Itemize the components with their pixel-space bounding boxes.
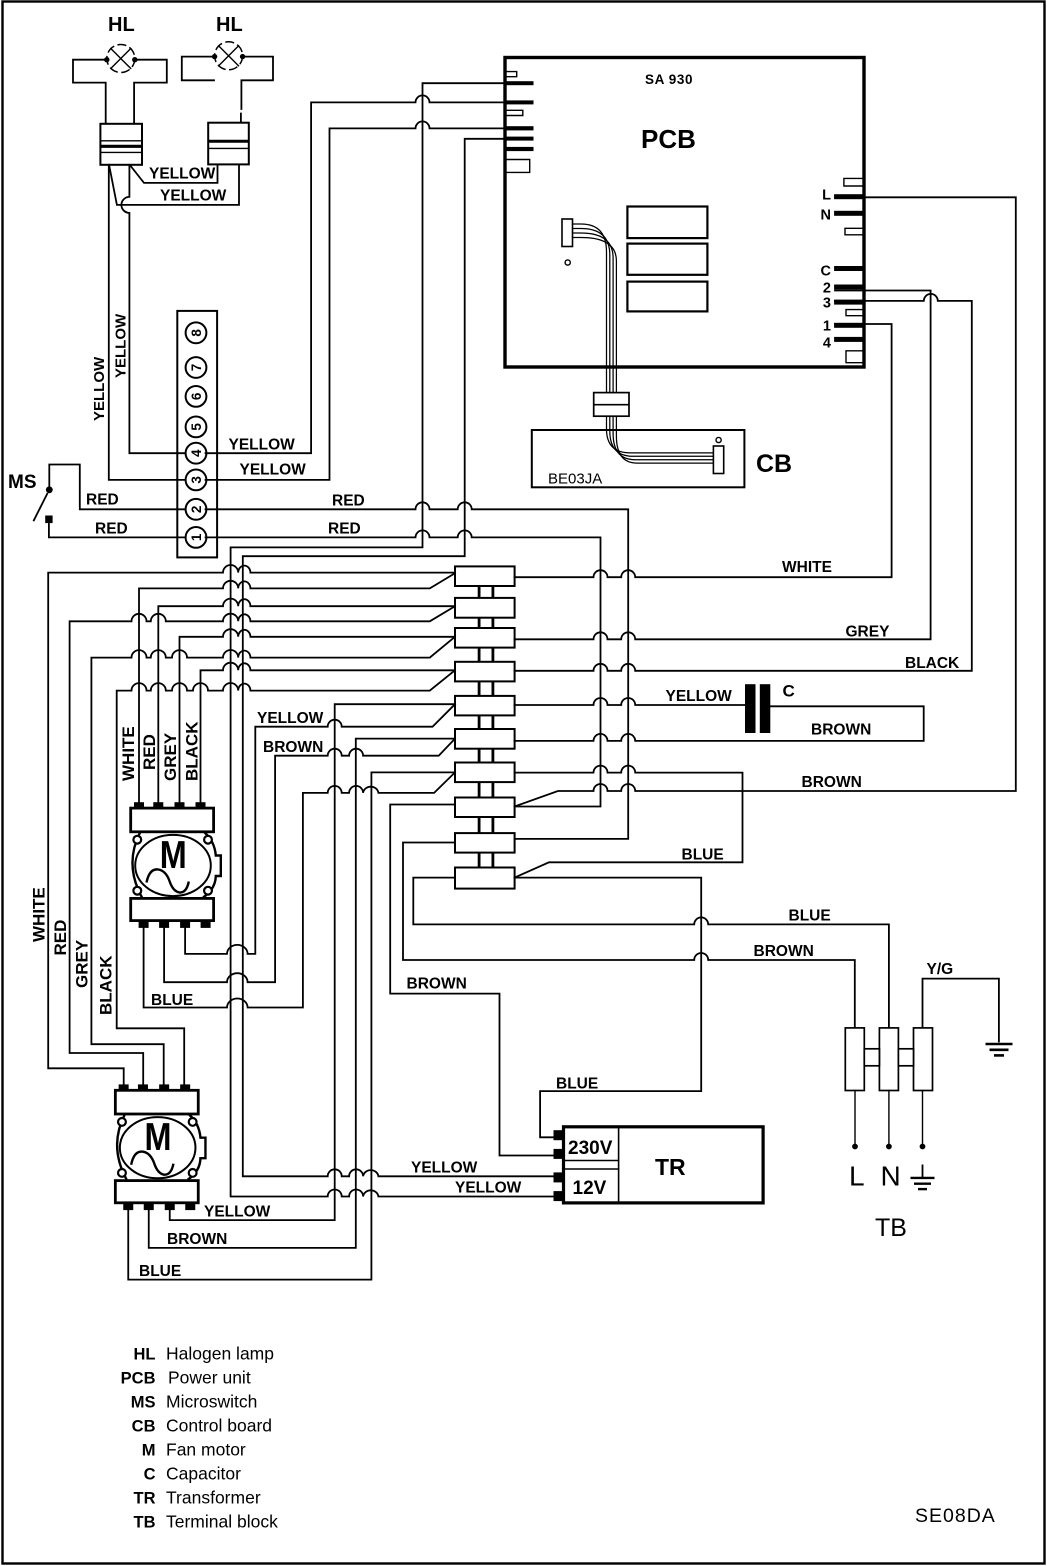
- svg-text:TB: TB: [875, 1214, 907, 1242]
- terminal block TB terminal 1: [845, 1028, 864, 1091]
- wire RED terminal 1 to plug 8: [206, 530, 601, 806]
- svg-text:2: 2: [823, 281, 831, 297]
- connector chain plug 5: [455, 696, 515, 716]
- svg-text:RED: RED: [86, 492, 119, 509]
- svg-text:RED: RED: [332, 493, 365, 510]
- svg-text:L: L: [822, 188, 831, 204]
- halogen lamp HL1 bulb: [104, 45, 137, 73]
- motor M1 casing: [132, 833, 220, 898]
- TR 230V/12V separator lines: [564, 1161, 619, 1170]
- svg-text:Halogen lamp: Halogen lamp: [166, 1344, 274, 1364]
- svg-text:Microswitch: Microswitch: [166, 1392, 257, 1412]
- wire YELLOW terminal 3 to PCB pin (hop over vertical): [206, 121, 504, 480]
- wire PCB tooth1 to TR 12V via left bus (YELLOW): [231, 83, 555, 1196]
- svg-text:BLUE: BLUE: [789, 908, 831, 925]
- connector chain plug 9: [455, 833, 515, 853]
- svg-text:YELLOW: YELLOW: [240, 462, 307, 479]
- svg-text:WHITE: WHITE: [30, 887, 49, 942]
- svg-text:HL: HL: [134, 1346, 156, 1364]
- svg-text:MS: MS: [8, 472, 37, 493]
- PCB left edge thin notches: [505, 72, 530, 173]
- svg-text:YELLOW: YELLOW: [666, 688, 733, 705]
- svg-text:YELLOW: YELLOW: [411, 1160, 478, 1177]
- svg-text:BROWN: BROWN: [811, 722, 871, 739]
- connector chain plug 8: [455, 798, 515, 818]
- svg-text:YELLOW: YELLOW: [113, 313, 130, 378]
- svg-text:RED: RED: [140, 734, 159, 770]
- connector chain link 7-8: [479, 782, 493, 797]
- legend row HL: [134, 1344, 274, 1364]
- wire WHITE motor2 top pin1 to plug 1: [48, 565, 455, 1085]
- PCB right tooth pin C: [834, 266, 864, 271]
- svg-text:BROWN: BROWN: [407, 976, 467, 993]
- motor M1 sine curve: [147, 869, 189, 892]
- svg-text:CB: CB: [756, 450, 792, 478]
- svg-text:5: 5: [189, 423, 204, 431]
- connector chain plug 3: [455, 628, 515, 648]
- connector chain link 8-9: [479, 817, 493, 833]
- terminal 5: [186, 417, 207, 438]
- microswitch MS: [33, 486, 52, 523]
- terminal strip box: [177, 311, 217, 558]
- svg-text:GREY: GREY: [73, 939, 92, 988]
- TB link bar 1-2: [864, 1049, 879, 1066]
- halogen lamp HL1 connector block: [100, 124, 142, 165]
- svg-text:TR: TR: [134, 1490, 156, 1508]
- wire Y/G TB earth to ground: [923, 979, 999, 1042]
- svg-text:PCB: PCB: [121, 1370, 156, 1388]
- motor M1 bottom pin 1: [139, 921, 149, 928]
- wire WHITE motor1 top pin1 to plug 1 diagonal: [139, 573, 455, 802]
- terminal 3: [186, 470, 207, 491]
- motor M1 bottom pin 3: [180, 921, 190, 928]
- connector chain link 6-7: [479, 749, 493, 763]
- PCB right tooth pin L: [834, 194, 864, 199]
- svg-text:BLUE: BLUE: [139, 1263, 181, 1280]
- svg-text:C: C: [783, 682, 795, 701]
- CB control board outline: [532, 430, 745, 487]
- CB connector: [713, 446, 723, 474]
- legend row TR: [134, 1488, 261, 1508]
- svg-text:12V: 12V: [573, 1178, 607, 1199]
- svg-text:HL: HL: [108, 14, 135, 36]
- motor M1 top pin 4: [196, 802, 206, 809]
- motor M1 bottom pin 2: [159, 921, 169, 928]
- TR pin B: [554, 1149, 566, 1159]
- svg-text:BROWN: BROWN: [167, 1231, 227, 1248]
- svg-text:BLUE: BLUE: [556, 1076, 598, 1093]
- motor M1 bolt bottom-right: [204, 887, 212, 895]
- PCB left edge tooth pin 5: [505, 147, 534, 151]
- terminal 2: [186, 499, 207, 520]
- PCB right edge thin notches: [844, 178, 864, 362]
- connector chain plug 4: [455, 662, 515, 682]
- TB terminal 2: [879, 1028, 898, 1091]
- svg-text:BLACK: BLACK: [905, 655, 960, 672]
- TB terminal 3: [914, 1028, 933, 1091]
- wire RED motor1 top pin2 to plug 2: [158, 599, 455, 802]
- wire YELLOW lamp1 to lamp2 upper: [130, 164, 217, 183]
- svg-text:YELLOW: YELLOW: [455, 1180, 522, 1197]
- wire TB terminal 2 to N: [888, 1091, 890, 1144]
- PCB right tooth pin 4: [834, 337, 864, 342]
- svg-text:Power unit: Power unit: [168, 1368, 251, 1388]
- CB connector circle: [716, 437, 721, 442]
- svg-text:Capacitor: Capacitor: [166, 1464, 241, 1484]
- wire BLUE motor2 bottom pin1 to plug 7: [128, 772, 455, 1279]
- transformer TR outline: [564, 1127, 764, 1203]
- svg-text:Transformer: Transformer: [166, 1488, 261, 1508]
- wire YELLOW motor1 bottom pin3 to plug 5 diagonal: [185, 704, 455, 954]
- motor M1 inner circle: [135, 835, 211, 896]
- svg-text:1: 1: [823, 319, 831, 335]
- svg-text:Terminal block: Terminal block: [166, 1512, 278, 1532]
- wire BLUE motor1 bottom pin1 to plug 7 diagonal: [144, 772, 455, 1007]
- motor M1 bolt top-left: [133, 836, 141, 844]
- wire BROWN plug 9 to TB terminal L: [403, 843, 855, 1027]
- wire BLACK plug 4 to PCB pin 3 (hop near PCB): [515, 294, 972, 671]
- connector chain plug 10: [455, 868, 515, 889]
- connector chain link 1-2: [479, 586, 493, 598]
- motor M1 top pin 3: [175, 802, 185, 809]
- svg-text:BLACK: BLACK: [97, 955, 116, 1015]
- halogen lamp HL1 bracket: [73, 60, 167, 124]
- wire TB terminal 1 to L: [854, 1091, 856, 1144]
- wire YELLOW motor2 bottom pin3 to plug 5: [170, 704, 455, 1220]
- wire BROWN plug 8 to TR 230V lower pin: [390, 805, 554, 1156]
- svg-text:C: C: [821, 264, 832, 280]
- capacitor C plate left: [745, 684, 756, 733]
- svg-text:3: 3: [189, 476, 204, 484]
- svg-text:RED: RED: [51, 920, 70, 956]
- svg-text:WHITE: WHITE: [119, 726, 138, 781]
- wire BROWN motor1 bottom pin2 to plug 6 diagonal: [164, 739, 455, 983]
- svg-text:L: L: [849, 1161, 865, 1192]
- PCB power unit SA930 outline: [505, 58, 864, 368]
- fan motor M2: [115, 1084, 205, 1210]
- wire MS top contact to terminal 2 RED: [49, 465, 186, 510]
- svg-text:4: 4: [189, 449, 204, 457]
- PCB right tooth pin 3: [834, 300, 864, 305]
- wire RED motor2 top pin2 to plug 2 diagonal: [70, 606, 455, 1084]
- TR pin C: [554, 1172, 566, 1182]
- PCB relay box 2: [627, 244, 707, 275]
- svg-text:6: 6: [189, 392, 204, 400]
- PCB left edge tooth pin 3: [505, 126, 534, 130]
- wire TB terminal 3 to earth: [922, 1091, 924, 1144]
- svg-text:CB: CB: [132, 1418, 156, 1436]
- svg-text:YELLOW: YELLOW: [149, 166, 216, 183]
- TB link bar 2-3: [898, 1049, 913, 1066]
- svg-text:4: 4: [823, 336, 831, 352]
- ribbon clamp: [594, 393, 629, 417]
- wire BROWN plug 8 diagonal to PCB pin L: [515, 197, 1016, 806]
- svg-text:YELLOW: YELLOW: [257, 710, 324, 727]
- svg-text:1: 1: [189, 533, 204, 541]
- node L dot: [852, 1144, 858, 1150]
- connector chain link 5-6: [479, 715, 493, 729]
- svg-text:M: M: [142, 1442, 156, 1460]
- PCB right tooth pin 2: [834, 285, 864, 290]
- motor M1 bolt bottom-left: [133, 887, 141, 895]
- legend row MS: [131, 1392, 258, 1412]
- connector chain link 2-3: [479, 618, 493, 628]
- TR divider: [618, 1127, 620, 1203]
- svg-text:YELLOW: YELLOW: [229, 437, 296, 454]
- wire GREY motor2 top pin3 to plug 3 diagonal: [91, 637, 455, 1085]
- PCB relay box 1: [627, 207, 707, 239]
- connector chain link 4-5: [479, 681, 493, 696]
- terminal 1: [186, 527, 207, 548]
- connector chain plug 7: [455, 763, 515, 783]
- svg-text:BLACK: BLACK: [183, 721, 202, 781]
- svg-text:RED: RED: [95, 521, 128, 538]
- halogen lamp HL2 bracket: [182, 57, 273, 123]
- wire YELLOW plug 5 to capacitor: [515, 698, 745, 705]
- svg-text:2: 2: [189, 506, 204, 514]
- wire WHITE plug 1 to PCB pin 1: [515, 324, 892, 577]
- svg-text:230V: 230V: [568, 1138, 613, 1159]
- svg-text:N: N: [881, 1161, 901, 1192]
- svg-text:GREY: GREY: [846, 624, 891, 641]
- svg-text:YELLOW: YELLOW: [204, 1204, 271, 1221]
- wire YELLOW lamp1 to terminal 3: [109, 165, 187, 480]
- halogen lamp HL2 connector block: [208, 123, 249, 165]
- svg-text:TB: TB: [134, 1514, 156, 1532]
- svg-text:MS: MS: [131, 1394, 156, 1412]
- connector chain link 3-4: [479, 648, 493, 662]
- TB earth symbol: [911, 1165, 935, 1190]
- fan motor M1: [131, 802, 221, 928]
- svg-text:BROWN: BROWN: [263, 739, 323, 756]
- wire PCB tooth4 to TR 12V via left bus (YELLOW): [243, 139, 555, 1177]
- terminal 8: [186, 322, 207, 343]
- svg-text:YELLOW: YELLOW: [160, 188, 227, 205]
- svg-text:PCB: PCB: [641, 124, 696, 154]
- svg-text:Control board: Control board: [166, 1416, 272, 1436]
- motor M1 top terminal block: [131, 808, 214, 832]
- terminal 7: [186, 357, 207, 378]
- svg-text:BLUE: BLUE: [151, 992, 193, 1009]
- ground symbol: [986, 1044, 1013, 1055]
- svg-text:BE03JA: BE03JA: [548, 471, 602, 488]
- svg-text:RED: RED: [328, 521, 361, 538]
- svg-text:GREY: GREY: [161, 732, 180, 781]
- node N dot: [886, 1144, 892, 1150]
- wire YELLOW lamp1 to lamp2 lower: [109, 165, 239, 205]
- terminal 4: [186, 443, 207, 464]
- PCB right tooth pin N: [834, 211, 864, 216]
- svg-text:8: 8: [189, 329, 204, 337]
- PCB relay box 3: [627, 282, 707, 312]
- wire BROWN capacitor to plug 6: [515, 706, 924, 741]
- svg-text:WHITE: WHITE: [782, 559, 832, 576]
- motor M1 bottom terminal block: [131, 898, 214, 920]
- svg-text:SA 930: SA 930: [645, 72, 693, 87]
- legend row CB: [132, 1416, 272, 1436]
- svg-text:HL: HL: [216, 14, 243, 36]
- svg-text:BROWN: BROWN: [754, 943, 814, 960]
- svg-text:BROWN: BROWN: [802, 774, 862, 791]
- svg-text:C: C: [144, 1466, 156, 1484]
- wire GREY motor1 top pin3 to plug 3: [180, 629, 456, 802]
- wire BLUE plug 10 right to TR 230V upper pin: [515, 878, 702, 1138]
- wire RED terminal 2 to plug 9: [206, 502, 629, 839]
- svg-text:N: N: [821, 208, 831, 224]
- svg-text:BLUE: BLUE: [682, 846, 724, 863]
- motor M1 top pin 1: [134, 802, 144, 809]
- motor M1 top pin 2: [153, 802, 163, 809]
- wire BLACK motor2 top pin4 to plug 4 diagonal: [117, 670, 455, 1084]
- PCB left edge tooth pin 2: [505, 100, 534, 104]
- connector chain plug 2: [455, 598, 515, 618]
- capacitor C plate right: [760, 684, 771, 733]
- node earth dot: [920, 1144, 926, 1150]
- PCB internal connector: [562, 219, 573, 247]
- connector chain link 9-10: [479, 853, 493, 868]
- wire BLUE plug 10 to TB terminal N: [413, 878, 889, 1027]
- svg-text:7: 7: [189, 364, 204, 372]
- PCB right tooth pin 1: [834, 323, 864, 328]
- TR pin D: [554, 1191, 566, 1201]
- wire YELLOW lamp1 to terminal 4 (hop over yellow link): [121, 165, 186, 453]
- connector chain plug 1: [455, 566, 515, 586]
- wire BLACK motor1 top pin4 to plug 4: [201, 663, 456, 802]
- terminal 6: [186, 386, 207, 407]
- svg-text:Fan motor: Fan motor: [166, 1440, 246, 1460]
- wire plug 7 output to plug 10 diagonal (BLUE): [515, 766, 743, 878]
- motor M1 bottom pin 4: [201, 921, 211, 928]
- svg-text:SE08DA: SE08DA: [915, 1505, 996, 1527]
- PCB left edge tooth pin 1: [505, 81, 534, 85]
- svg-text:3: 3: [823, 296, 831, 312]
- legend row PCB: [121, 1368, 251, 1388]
- legend row C: [144, 1464, 241, 1484]
- legend row TB: [134, 1512, 279, 1532]
- svg-text:TR: TR: [655, 1154, 686, 1180]
- wire GREY plug 3 to PCB pin 2: [515, 291, 931, 640]
- wire MS bottom contact to terminal 1 RED: [49, 523, 187, 537]
- wire YELLOW terminal 4 to PCB pin (hop over vertical): [206, 95, 504, 453]
- wire BROWN motor2 bottom pin2 to plug 6: [149, 739, 455, 1248]
- svg-text:YELLOW: YELLOW: [91, 356, 108, 421]
- PCB left edge tooth pin 4: [505, 137, 534, 141]
- TR pin A: [554, 1130, 566, 1140]
- PCB internal test point circle: [565, 260, 570, 265]
- motor M1 bolt top-right: [204, 836, 212, 844]
- ribbon cable PCB to CB: [573, 224, 714, 463]
- svg-text:Y/G: Y/G: [927, 961, 954, 978]
- connector chain plug 6: [455, 729, 515, 749]
- legend row M: [142, 1440, 246, 1460]
- halogen lamp HL2 bulb: [212, 42, 245, 70]
